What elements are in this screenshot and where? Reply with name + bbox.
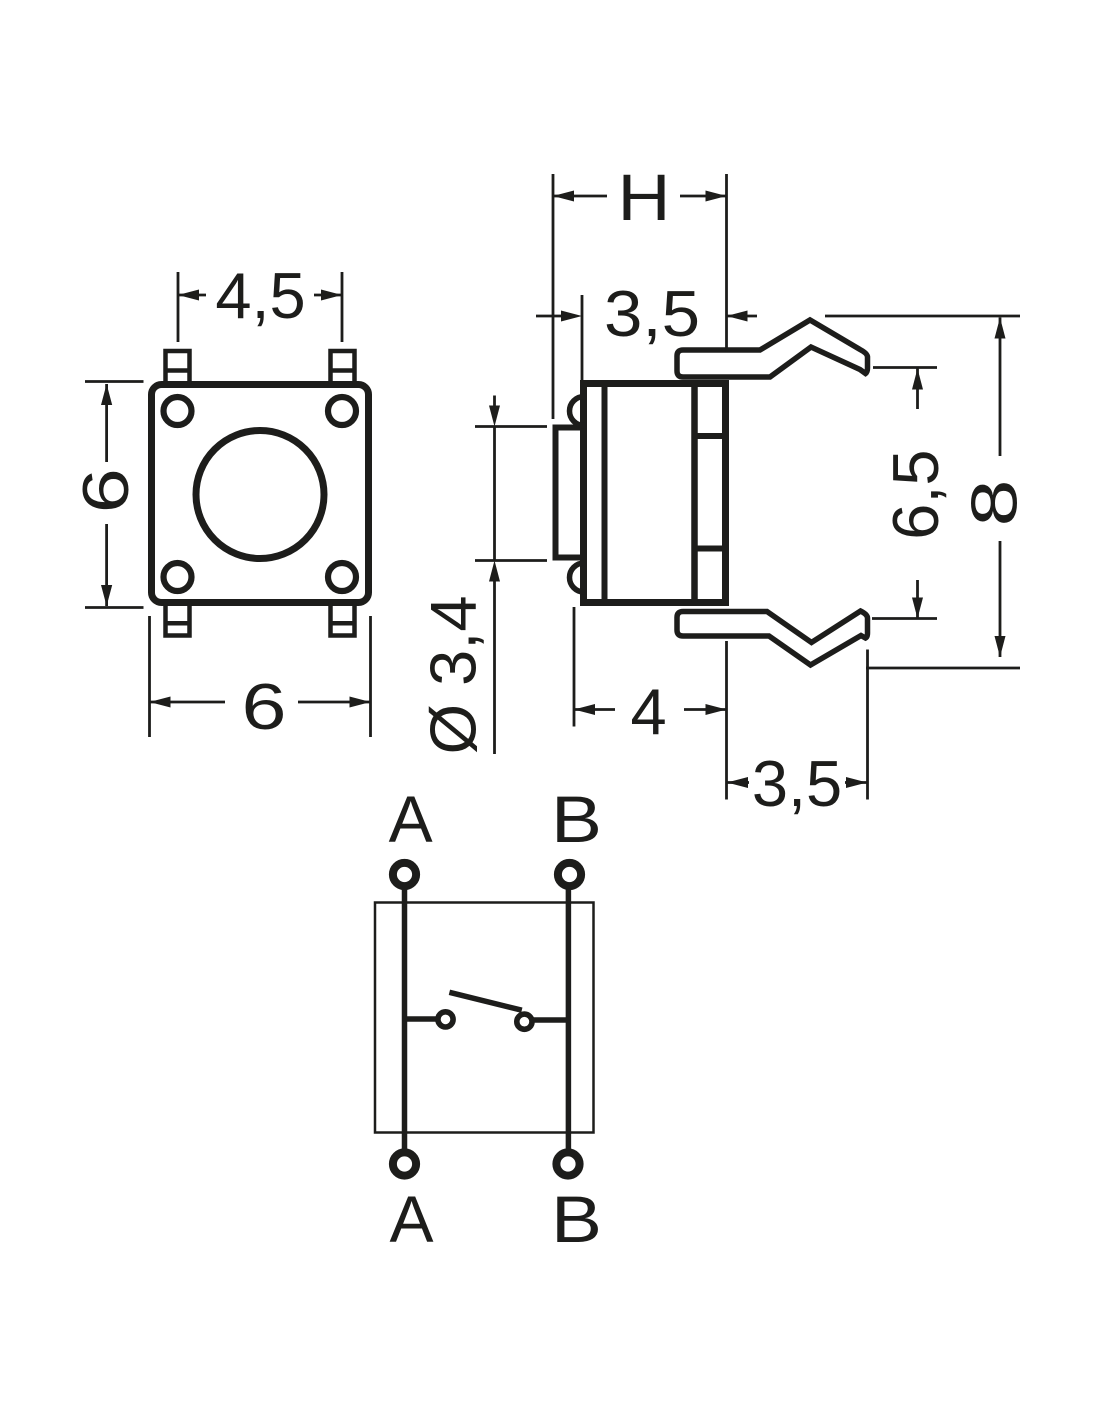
dimension 6 height (left)	[85, 382, 144, 608]
svg-text:Ø 3,4: Ø 3,4	[417, 596, 490, 755]
dimension 4 body width	[574, 607, 727, 727]
terminal B top circle	[558, 863, 581, 886]
corner standoff top-right	[328, 397, 356, 425]
svg-text:6: 6	[69, 468, 142, 513]
svg-text:B: B	[551, 1182, 602, 1256]
dimension 4,5 pin pitch	[178, 272, 342, 342]
standoff bump bottom (side view)	[570, 563, 585, 592]
corner standoff bottom-right	[328, 563, 356, 591]
terminal A bottom circle	[393, 1152, 416, 1175]
wire switch left	[405, 1016, 440, 1022]
switch body front view	[152, 385, 369, 603]
pin top-right front view	[331, 351, 355, 385]
mounting clip bottom	[677, 611, 868, 665]
svg-text:4,5: 4,5	[215, 259, 305, 332]
corner standoff bottom-left	[164, 563, 192, 591]
contact right circle	[517, 1014, 532, 1029]
standoff bump top (side view)	[570, 397, 585, 426]
svg-text:3,5: 3,5	[604, 277, 700, 350]
terminal block divider upper	[695, 433, 726, 439]
corner standoff top-left	[164, 397, 192, 425]
svg-text:B: B	[551, 782, 602, 856]
svg-text:A: A	[389, 1182, 433, 1256]
dimension diameter 3,4 plunger	[475, 396, 547, 755]
plunger button front view	[196, 431, 324, 559]
dimension 6,5 clip inner span	[872, 368, 937, 619]
terminal B bottom circle	[556, 1152, 579, 1175]
pin top-left front view	[166, 351, 190, 385]
switch lever	[449, 992, 521, 1010]
schematic outline box	[375, 903, 594, 1133]
plunger side view	[556, 428, 584, 558]
switch body side view	[584, 384, 726, 603]
pin bottom-left front view	[166, 603, 190, 636]
dimension 3,5 bottom clip offset	[727, 650, 868, 800]
svg-text:A: A	[389, 782, 433, 856]
body inner wall line	[602, 384, 608, 603]
terminal block divider lower	[695, 546, 726, 552]
wire switch right	[531, 1017, 568, 1023]
terminal block divider (column left edge)	[691, 384, 698, 603]
svg-text:8: 8	[958, 480, 1031, 527]
wire A vertical	[402, 888, 408, 1151]
svg-text:6: 6	[242, 670, 287, 743]
dimension 6 width (bottom)	[150, 616, 371, 737]
pin bottom-right front view	[331, 603, 355, 636]
wire B vertical	[566, 888, 572, 1151]
svg-text:6,5: 6,5	[879, 449, 952, 539]
svg-text:H: H	[618, 160, 671, 234]
mounting clip top	[677, 320, 868, 377]
dimension H overall height	[553, 174, 727, 800]
dimension 8 clip outer span	[825, 316, 1020, 668]
terminal A top circle	[393, 863, 416, 886]
svg-text:3,5: 3,5	[752, 747, 842, 820]
svg-text:4: 4	[631, 675, 667, 748]
dimension 3,5 top	[536, 295, 757, 381]
contact left circle	[438, 1012, 453, 1027]
